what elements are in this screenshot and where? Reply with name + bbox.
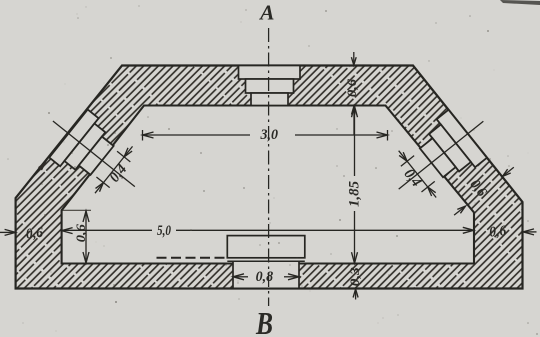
svg-text:0,6: 0,6 [25,225,44,243]
svg-text:0,8: 0,8 [256,269,274,285]
svg-text:0,6: 0,6 [73,224,88,243]
svg-text:B: B [255,305,273,337]
svg-text:A: A [258,1,274,25]
svg-text:0,6: 0,6 [488,223,507,241]
svg-text:0,6: 0,6 [344,78,359,97]
svg-text:0,3: 0,3 [347,267,362,287]
svg-text:1,85: 1,85 [346,181,362,207]
svg-text:5,0: 5,0 [157,223,171,239]
